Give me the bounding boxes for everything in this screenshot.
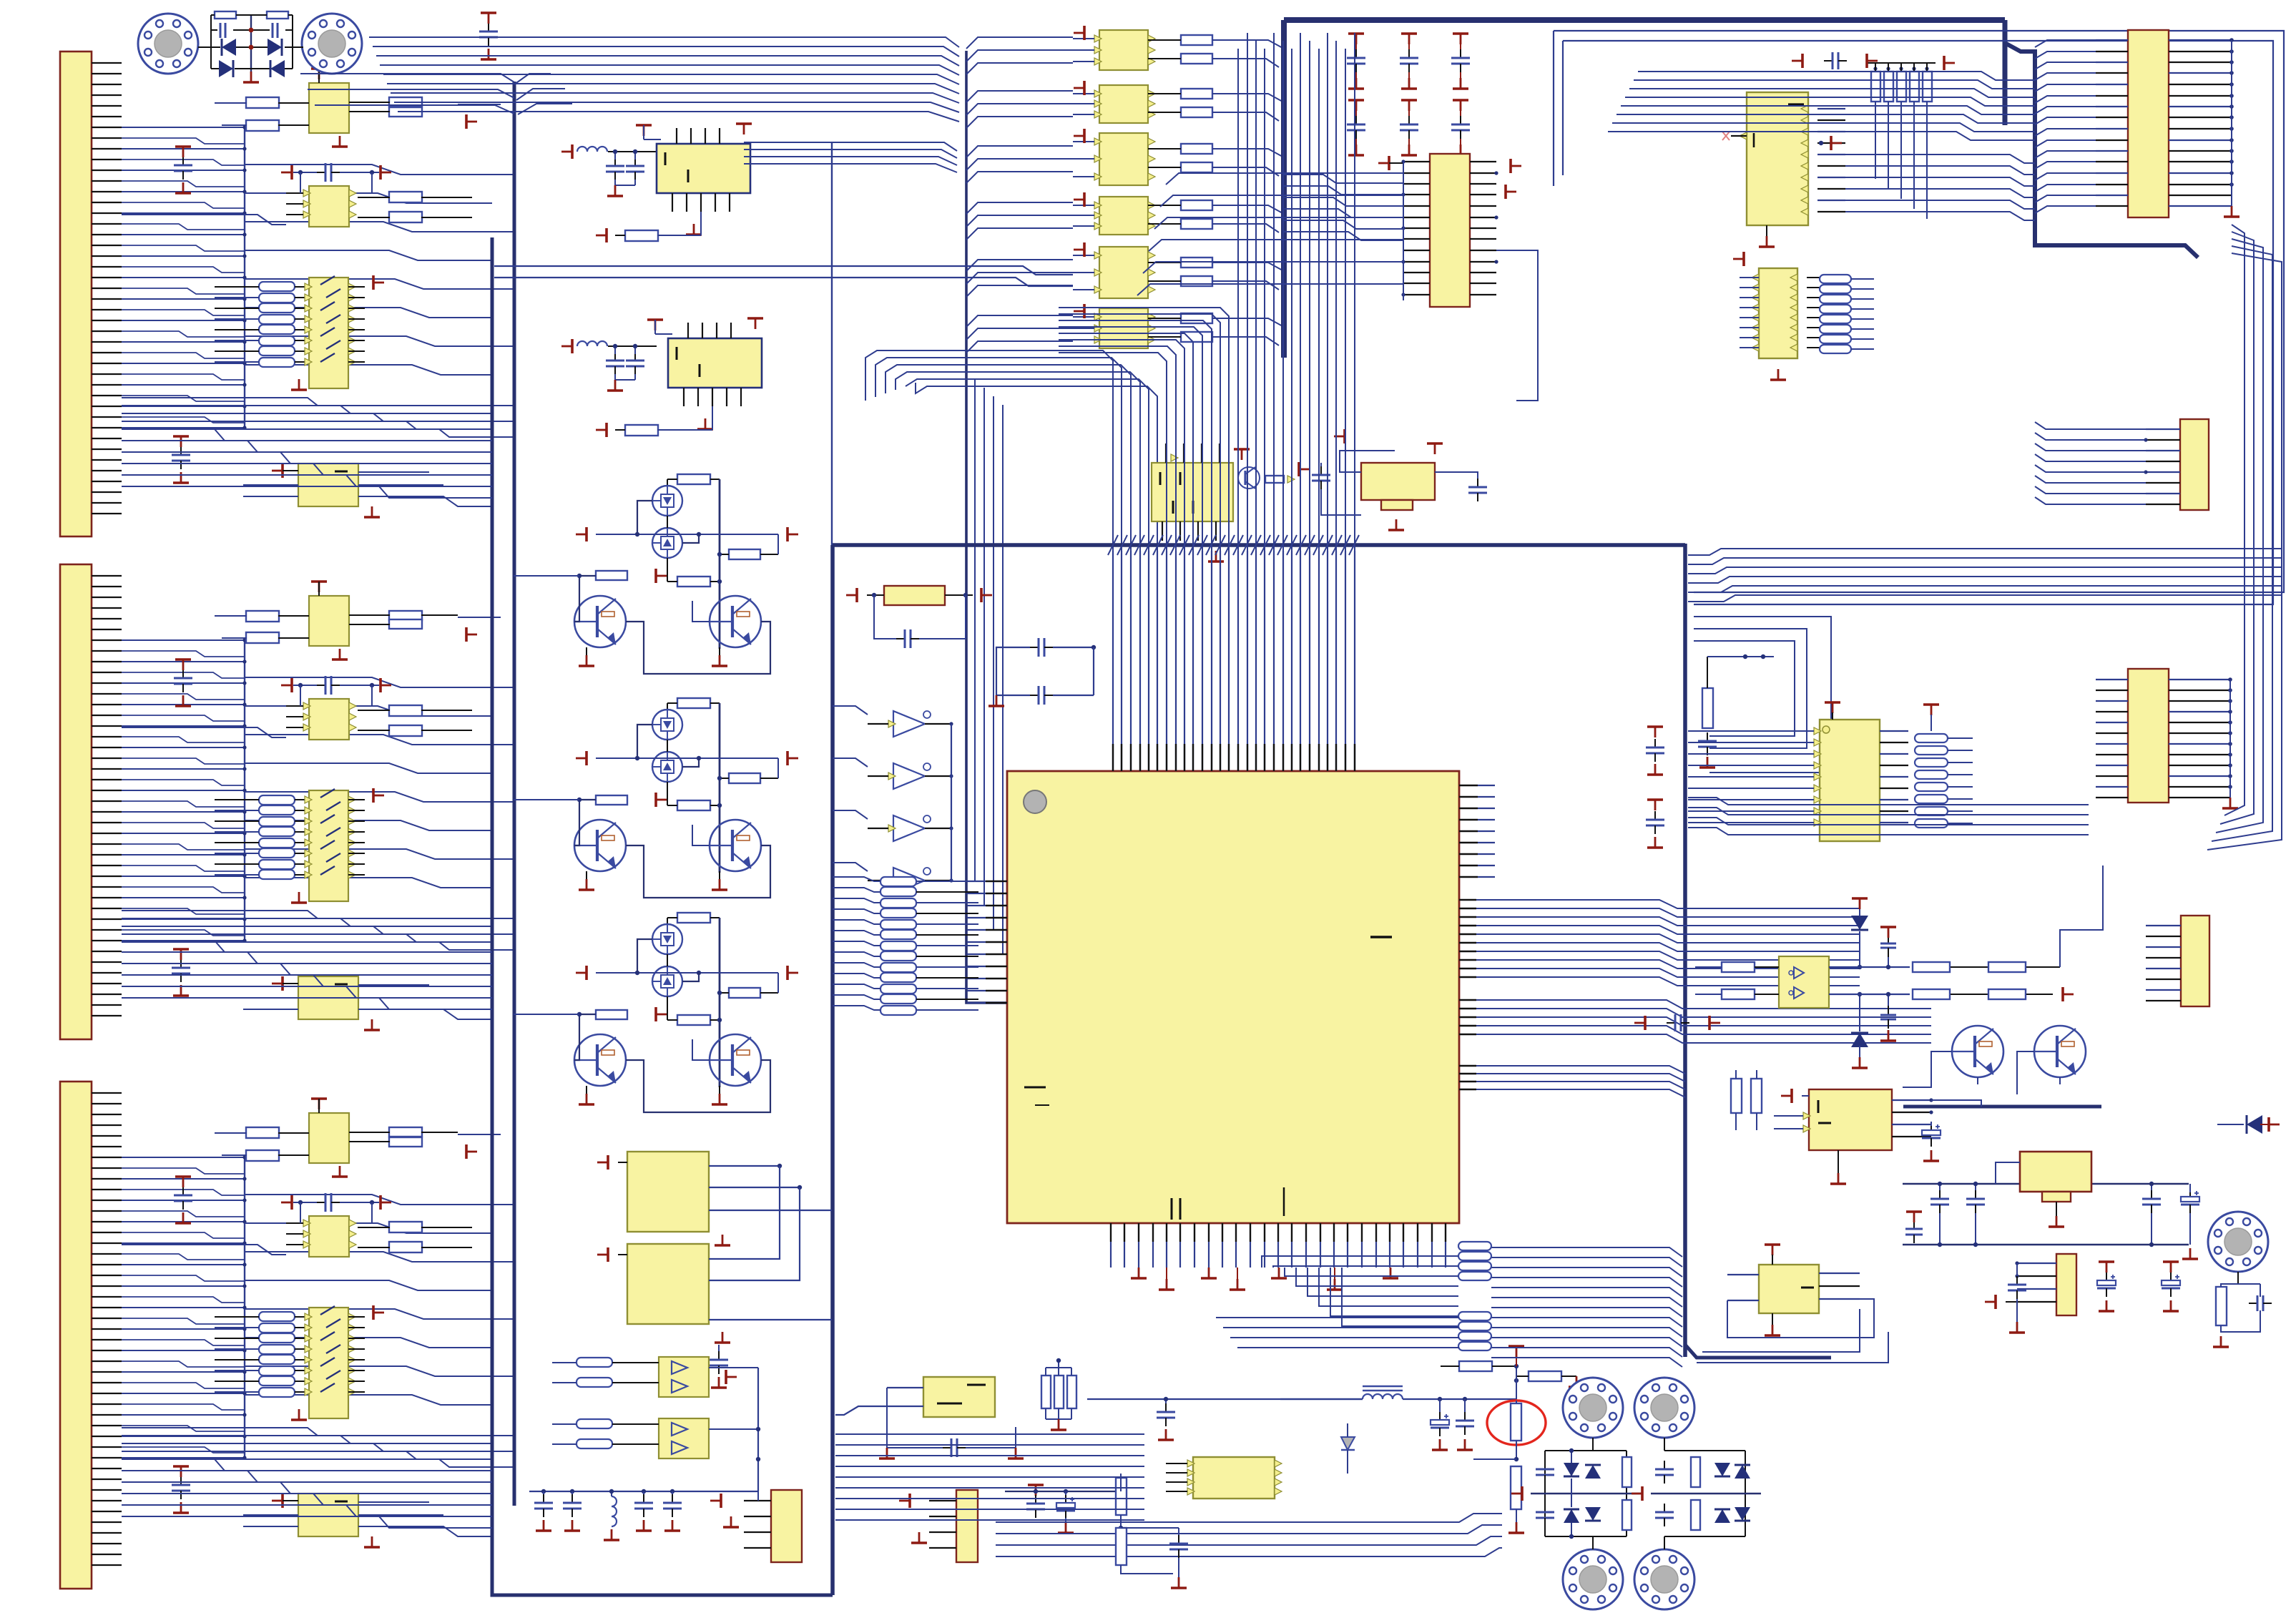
U21 arrow pin bbox=[1171, 454, 1178, 461]
IC U60 (transceiver top right) bbox=[1747, 92, 1808, 225]
U20 wires to left area bbox=[1166, 173, 1403, 185]
power stub U301 bbox=[311, 1097, 327, 1100]
IC U50 (buck regulator) bbox=[1193, 1457, 1275, 1499]
MOSFET Q301 bbox=[652, 486, 682, 516]
bridge 2 capacitor top bbox=[1664, 1461, 1665, 1469]
resistor R6b bbox=[625, 425, 658, 436]
power stub U204 left bbox=[281, 976, 284, 991]
Q60 base wire bbox=[1903, 1051, 1952, 1087]
J60 right pins bbox=[2169, 39, 2232, 41]
capacitor C75 mid bbox=[1913, 1220, 1915, 1229]
J70 pin stub left bbox=[1994, 1295, 1997, 1309]
resistor network RN23 bbox=[259, 795, 295, 805]
resistor R212 bbox=[246, 632, 279, 643]
wire rail to red-circled resistor bbox=[1495, 1398, 1516, 1400]
mounting hole MH1 bbox=[138, 14, 198, 74]
U21 pins top bbox=[1165, 443, 1167, 463]
transistor Q303 bbox=[574, 596, 626, 647]
IC U303 (opto array) bbox=[309, 1308, 348, 1418]
U70 ground bbox=[1838, 1150, 1839, 1173]
resistor R313 bbox=[389, 1127, 422, 1137]
capacitor C63 bbox=[1654, 811, 1656, 820]
wire Q314 base bbox=[692, 825, 710, 845]
thick box central right edge bbox=[1683, 544, 1687, 1357]
resistor R113 bbox=[389, 97, 422, 107]
capacitor C52 bbox=[634, 157, 636, 166]
bridge 2 frame bbox=[1664, 1438, 1665, 1451]
power stub U13 bbox=[1083, 192, 1086, 207]
power stub U14 bbox=[1083, 242, 1086, 257]
ground U301 bbox=[339, 1166, 341, 1177]
U41 wires bbox=[709, 1166, 780, 1259]
wire bundle driver box exits right bbox=[458, 1427, 492, 1428]
J41 pins bbox=[929, 1500, 956, 1501]
resistor RP1 (yellow) bbox=[884, 586, 945, 605]
capacitor C40800 bbox=[571, 1494, 573, 1503]
resistor R12b bbox=[1181, 162, 1212, 172]
IC U71 (regulator with tab) bbox=[2020, 1152, 2091, 1192]
inductor L5 bbox=[577, 147, 607, 152]
power stub R314 right bbox=[465, 1144, 468, 1159]
capacitor C6 bbox=[272, 23, 274, 38]
power stub U201 bbox=[311, 580, 327, 583]
U63 left pins bbox=[1814, 727, 1821, 735]
resistor R55 bbox=[1116, 1528, 1127, 1565]
J40 pins bbox=[744, 1500, 771, 1501]
IC U6 (DC-DC converter) bbox=[668, 338, 762, 388]
IC U202 (optocoupler) bbox=[309, 699, 349, 740]
connector J3 pin stubs bbox=[92, 1092, 122, 1094]
resistor R211 bbox=[246, 611, 279, 622]
resistor network RN33 bbox=[259, 1312, 295, 1321]
diode clamp network resistor R6 bbox=[267, 11, 288, 19]
power stub U10 bbox=[1083, 26, 1086, 40]
cap + ecap C54 bbox=[1028, 1484, 1044, 1486]
U5 top pins bbox=[676, 128, 677, 144]
diode D70 (to rail) bbox=[2247, 1115, 2262, 1134]
thick box right edge bottom corner bbox=[1685, 1345, 1831, 1358]
capacitor C200 bbox=[1348, 32, 1364, 35]
wire bundle driver column to bus bbox=[1245, 40, 1284, 49]
U20 right pins bbox=[1470, 161, 1496, 162]
IC U20 (level shifter) bbox=[1430, 154, 1470, 307]
electrolytic C70 bbox=[1930, 1122, 1932, 1130]
U6 bottom pins bbox=[683, 388, 685, 406]
MCU bottom pin power stubs bbox=[1166, 1268, 1167, 1279]
U40 wires right bbox=[709, 1165, 780, 1167]
resistor R62 with cap bbox=[1702, 688, 1713, 728]
resistor R13b bbox=[1181, 219, 1212, 229]
ground C31 bbox=[996, 695, 998, 706]
U43 out bbox=[709, 1428, 758, 1430]
transistor Q61 bbox=[2034, 1026, 2086, 1077]
resistor R72 bbox=[1731, 1079, 1742, 1113]
capacitor C26 bbox=[1477, 479, 1478, 487]
resistor R322 bbox=[389, 1242, 422, 1252]
ground U21 bbox=[1234, 448, 1250, 451]
MCU right pins upper bbox=[1459, 785, 1478, 786]
MOSFET Q322 bbox=[652, 966, 682, 996]
bridge 1 resistor top bbox=[1622, 1457, 1632, 1487]
wires U104 bbox=[243, 484, 298, 486]
nested frame wires bbox=[1694, 617, 1831, 773]
capacitor C65 bbox=[1888, 934, 1889, 943]
wires RN13 left bbox=[215, 286, 259, 288]
MCU pin1 mark bbox=[1024, 790, 1046, 813]
resistor R312 bbox=[246, 1150, 279, 1161]
inner frame verticals bbox=[1553, 31, 1554, 186]
capacitor C3a bbox=[182, 1187, 184, 1195]
wire J1 to U102 bbox=[122, 215, 286, 225]
resistor R31b bbox=[677, 800, 710, 810]
inner frame loop 2 bbox=[1563, 41, 2273, 604]
collector loop 32 bbox=[626, 1060, 770, 1112]
electrolytic C51 bbox=[1439, 1412, 1441, 1420]
capacitor C5 bbox=[220, 23, 222, 38]
ground U203 bbox=[298, 892, 300, 903]
buffer IC U42 bbox=[659, 1357, 709, 1397]
bus x1351 note bbox=[966, 544, 967, 546]
mounting hole MH2 bbox=[302, 14, 362, 74]
diode D1 bbox=[222, 39, 236, 56]
U72 wire loop bbox=[1727, 1299, 1874, 1338]
bridge 1 diodes bbox=[1564, 1463, 1579, 1476]
capacitor C202 bbox=[1453, 32, 1468, 35]
long wires bottom middle bbox=[996, 1514, 1502, 1522]
wire U50 top rail bbox=[1173, 1399, 1363, 1463]
J41 stubs bbox=[908, 1494, 911, 1508]
MOSFET Q312 bbox=[652, 752, 682, 782]
resistor R5b bbox=[625, 230, 658, 241]
IC U13 (gate driver) bbox=[1099, 197, 1148, 235]
resistor R52 (circled) bbox=[1511, 1403, 1521, 1441]
ground Q313 bbox=[586, 871, 587, 879]
resistor R67 bbox=[1988, 962, 2026, 972]
thin verticals dropping into central box bbox=[975, 379, 1007, 881]
transistor Q304 bbox=[710, 596, 761, 647]
wire bundle right of box upper bbox=[1688, 549, 2282, 555]
U6 top pins bbox=[687, 323, 689, 338]
cell output wire 30 bbox=[770, 665, 832, 674]
ground C5 bbox=[614, 185, 617, 196]
U60 left pin bbox=[1740, 132, 1747, 139]
resistor R32base bbox=[596, 1010, 627, 1019]
gate link wires 31 bbox=[637, 725, 652, 758]
wire bundle under chip left segments bbox=[1216, 1317, 1459, 1318]
resistor R31a bbox=[729, 773, 760, 783]
bridge 2 resistor bottom bbox=[1691, 1500, 1700, 1530]
capacitor C62 bbox=[634, 352, 636, 361]
U71 ground bbox=[2056, 1202, 2057, 1216]
J61 pins bbox=[2146, 428, 2180, 430]
transistor Q313 bbox=[574, 820, 626, 871]
IC U15 (gate driver) bbox=[1099, 308, 1148, 348]
gate rail 30 bbox=[596, 534, 778, 535]
arrow pin R20 bbox=[1287, 476, 1295, 483]
IC U5 (DC-DC converter) bbox=[657, 144, 750, 193]
IC U301 (isolator) bbox=[309, 1113, 349, 1163]
mounting hole MH7 bbox=[2208, 1212, 2268, 1272]
IC U203 (opto array) bbox=[309, 790, 348, 901]
gate rail 31 bbox=[596, 757, 778, 759]
electrolytic C74 bbox=[2189, 1189, 2191, 1197]
ground Q323 bbox=[586, 1086, 587, 1094]
U20 power stub right bbox=[1509, 159, 1512, 173]
capacitor C40940 bbox=[672, 1494, 673, 1503]
U5 bottom pins bbox=[672, 193, 673, 212]
R71 C76 join bbox=[2221, 1310, 2260, 1332]
thick bus top box left vertical bbox=[1281, 20, 1287, 358]
wire bundle driver box left inputs bbox=[494, 543, 544, 544]
thick box central left edge bbox=[830, 545, 835, 1595]
resistor R112 bbox=[246, 120, 279, 131]
U71 wires bbox=[1996, 1162, 2020, 1184]
U42 out bbox=[709, 1367, 758, 1368]
resistor R31g1 (drain) bbox=[677, 698, 710, 708]
bridge 1 capacitor top bbox=[1544, 1461, 1546, 1469]
capacitor C60 bbox=[1824, 60, 1833, 62]
IC U63 (octal driver) bbox=[1820, 720, 1880, 841]
capacitor C210 bbox=[1348, 99, 1364, 102]
resistor R32g1 (drain) bbox=[677, 913, 710, 923]
resistor R68 bbox=[1988, 989, 2026, 999]
collector loop 30 bbox=[626, 622, 770, 674]
power stub U12 bbox=[1083, 129, 1086, 143]
wire J2 to U202 bbox=[122, 727, 286, 737]
U60 right pins bbox=[1801, 105, 1808, 112]
wire bundle bus x1163 bottom exits bbox=[835, 1429, 1159, 1436]
capacitor C30 under RP1 bbox=[874, 595, 896, 639]
J70 pins bbox=[2017, 1262, 2056, 1264]
IC U101 (isolator) bbox=[309, 83, 349, 133]
mounting hole MH6 bbox=[1634, 1549, 1694, 1609]
connector J70 (narrow bottom right) bbox=[2056, 1254, 2076, 1315]
connector J40 (vertical) bbox=[771, 1490, 802, 1562]
IC U22 (oscillator) bbox=[1361, 463, 1435, 500]
capacitor C77 bbox=[2016, 1276, 2018, 1285]
wire Q304 base bbox=[692, 601, 710, 622]
wire bundle merging onto right bus bbox=[1491, 1247, 1682, 1257]
IC U41 (driver big 2) bbox=[627, 1244, 709, 1324]
inner frame loop 1 bbox=[1554, 31, 2284, 592]
U72 pins left bbox=[1727, 1274, 1759, 1275]
rail wire C54 bbox=[1023, 1491, 1036, 1492]
gate link wires 32 bbox=[637, 939, 652, 973]
wire bundle mid right of driver box bbox=[834, 1101, 973, 1102]
transformer T50 bbox=[1363, 1394, 1403, 1399]
diode clamp network resistor R5 bbox=[215, 11, 236, 19]
resistor R11a bbox=[1181, 89, 1212, 99]
electrolytic C79 bbox=[2170, 1273, 2172, 1280]
MOSFET Q302 bbox=[652, 528, 682, 558]
J63 ground bbox=[2229, 798, 2232, 808]
mounting hole MH3 bbox=[1563, 1378, 1623, 1438]
resistor R65 bbox=[1913, 962, 1950, 972]
ground U5 bbox=[693, 224, 695, 235]
inductor L40 bbox=[611, 1491, 612, 1496]
U63 power stubs bbox=[1825, 701, 1840, 704]
power stub U104 left bbox=[281, 464, 284, 478]
resistor R51 bbox=[1529, 1371, 1561, 1381]
wire bundle J1 to vertical bus bbox=[245, 165, 514, 175]
wire R113 out bbox=[458, 104, 501, 105]
U22 tab bbox=[1381, 500, 1413, 510]
diode D65 up bbox=[1851, 916, 1868, 930]
IC U40 (driver big) bbox=[627, 1152, 709, 1232]
MCU bottom pins bbox=[1110, 1223, 1112, 1242]
U41 power stub bbox=[607, 1247, 609, 1262]
ground C6 bbox=[614, 380, 617, 391]
resistor R30b bbox=[677, 577, 710, 587]
transistor Q60 bbox=[1952, 1026, 2003, 1077]
J60 left pins bbox=[2096, 39, 2128, 41]
MOSFET Q321 bbox=[652, 924, 682, 954]
IC U302 (optocoupler) bbox=[309, 1216, 349, 1257]
zener D50 bbox=[1341, 1437, 1355, 1450]
IC U61 (buffer mid right) bbox=[1759, 268, 1797, 358]
resistor R10a bbox=[1181, 35, 1212, 45]
capacitor C55 bbox=[1178, 1535, 1179, 1544]
IC U10 (gate driver) bbox=[1099, 30, 1148, 70]
resistor R54 bbox=[1116, 1478, 1127, 1515]
power stub U103 bbox=[372, 275, 375, 290]
U70 power bbox=[1790, 1089, 1793, 1103]
capacitor C212 bbox=[1453, 99, 1468, 102]
U60 power stub bbox=[1830, 136, 1833, 150]
diode D4 bbox=[270, 60, 285, 77]
wire hatch crossings over box top edge bbox=[1108, 535, 1118, 555]
wire bundle top-left to bus bbox=[300, 74, 514, 82]
power stub R50 bbox=[1508, 1345, 1524, 1348]
resistor bank RN61 bbox=[1820, 275, 1851, 283]
capacitor C40900 bbox=[643, 1494, 644, 1503]
transistor Q20 bbox=[1238, 467, 1260, 489]
MCU top pin bundle bbox=[1112, 551, 1114, 771]
MCU label dashes bbox=[1370, 936, 1392, 938]
bus A top entry bends bbox=[514, 74, 551, 84]
IC U11 (gate driver) bbox=[1099, 85, 1148, 123]
U42 input resistors bbox=[577, 1358, 612, 1367]
capacitor C1a bbox=[182, 157, 184, 165]
capacitor C52 bbox=[1464, 1412, 1466, 1421]
vertical bus x1351 (top-center) bbox=[966, 51, 1007, 1003]
MCU U30 (main processor) bbox=[1007, 771, 1459, 1223]
inverter gates U31-U34 bbox=[893, 711, 925, 737]
capacitor C61 bbox=[614, 352, 616, 361]
U20 power stub left bbox=[1388, 156, 1390, 170]
resistor R214 bbox=[389, 619, 422, 629]
resistor R314 bbox=[389, 1137, 422, 1147]
J60 fan-in from bus bbox=[2035, 40, 2096, 47]
wire connC bottom staircase group bbox=[122, 1459, 492, 1471]
power stub U22 bbox=[1343, 429, 1346, 443]
IC U65 (dual buffer) bbox=[1779, 956, 1829, 1008]
U21 pins bottom bbox=[1162, 521, 1163, 541]
capacitor C71 bbox=[1939, 1190, 1941, 1199]
bridge 2 capacitor bottom bbox=[1664, 1504, 1665, 1512]
U61 power bbox=[1742, 252, 1745, 266]
resistor R14b bbox=[1181, 276, 1212, 286]
ground U22 bbox=[1395, 519, 1398, 530]
transistor Q314 bbox=[710, 820, 761, 871]
connector J63 (right mid) bbox=[2128, 669, 2169, 803]
IC U204 (transceiver) bbox=[298, 976, 358, 1019]
U22 wires bbox=[1340, 451, 1395, 472]
U65 out wires bbox=[1829, 966, 1910, 968]
power stub R214 right bbox=[465, 627, 468, 642]
ground U304 bbox=[371, 1536, 373, 1547]
wires RN33 left bbox=[215, 1316, 259, 1318]
ground Q303 bbox=[586, 647, 587, 655]
bridge 1 resistor bottom bbox=[1622, 1500, 1632, 1530]
resistor R12a bbox=[1181, 144, 1212, 154]
electrolytic C78 bbox=[2106, 1273, 2107, 1280]
U50 arrow pins bbox=[1187, 1460, 1194, 1467]
wires U304 bbox=[243, 1514, 298, 1516]
capacitor C51 bbox=[614, 157, 616, 166]
U43 input resistors bbox=[577, 1419, 612, 1428]
resistor R221 bbox=[389, 705, 422, 716]
power stub U304 left bbox=[281, 1494, 284, 1508]
ground diode network bbox=[250, 72, 252, 82]
resistor R30base bbox=[596, 571, 627, 580]
far right vertical bundle bbox=[2224, 225, 2245, 815]
resistor network RN13 bbox=[259, 282, 295, 291]
bridge 1 mid rail bbox=[1531, 1493, 1642, 1494]
diode D66 down bbox=[1851, 1033, 1868, 1047]
U41 ground bbox=[722, 1332, 724, 1343]
resistor R321 bbox=[389, 1222, 422, 1232]
resistor network stack RN30 bbox=[880, 877, 916, 886]
wire R52 tap bbox=[1216, 1459, 1516, 1516]
mounting hole MH5 bbox=[1563, 1549, 1623, 1609]
J64 pins bbox=[2146, 925, 2181, 926]
buffer IC U43 bbox=[659, 1418, 709, 1458]
power stub U101 bbox=[311, 67, 327, 70]
resistor R73 bbox=[1751, 1079, 1762, 1113]
wires RN23 left bbox=[215, 799, 259, 800]
wire bus from J2 pins bbox=[244, 642, 245, 942]
series resistor groups RN51 RN52 in bus bbox=[1458, 1242, 1491, 1250]
wire fan bus x1351 to driver column inputs bbox=[966, 37, 1073, 49]
U70 left pins bbox=[1803, 1112, 1810, 1119]
wires U70 right rail bbox=[1931, 1100, 1981, 1107]
capacitor C2b bbox=[180, 959, 182, 968]
wire feeds into bus x1351 from DC-DC area bbox=[744, 142, 957, 151]
Q60 Q61 grounds bbox=[1977, 1077, 1978, 1084]
IC U201 (isolator) bbox=[309, 596, 349, 646]
ground U6 bbox=[705, 418, 707, 429]
IC U51 (comparator) bbox=[923, 1377, 995, 1417]
resistor R20 bbox=[1265, 476, 1284, 483]
wire bundle J3 to vertical bus bbox=[245, 1195, 514, 1205]
red highlight ellipse bbox=[1487, 1401, 1546, 1445]
U70 pins right bbox=[1892, 1099, 1931, 1101]
thick rail bottom right bbox=[1903, 1105, 2101, 1109]
ground U101 bbox=[339, 136, 341, 147]
U63 right pins bbox=[1880, 730, 1908, 732]
rail C71 C72 bbox=[1903, 1183, 2131, 1185]
diode D2 bbox=[268, 39, 282, 56]
long wires driver area to D5 fan bbox=[494, 266, 1073, 275]
U20 power stub right 2 bbox=[1504, 185, 1507, 199]
vertical bus line B / driver box left edge (x=688) bbox=[492, 237, 833, 1595]
cell output wire 31 bbox=[770, 889, 832, 898]
connector J1 (left edge) bbox=[60, 52, 92, 536]
U60 ground bbox=[1766, 236, 1768, 247]
U40 ground bbox=[722, 1235, 724, 1245]
resistor R32b bbox=[677, 1015, 710, 1025]
